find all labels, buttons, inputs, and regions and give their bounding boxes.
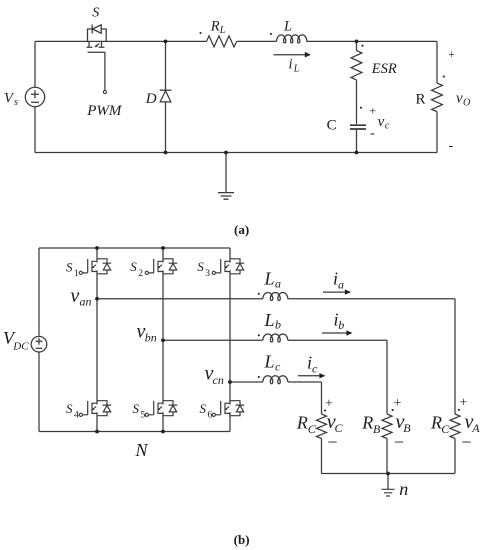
svg-text:S: S (197, 259, 204, 274)
svg-text:bn: bn (145, 330, 157, 344)
svg-text:L: L (219, 25, 226, 36)
svg-text:v: v (70, 285, 79, 307)
svg-text:b: b (338, 318, 344, 332)
svg-text:R: R (296, 412, 308, 432)
svg-text:−: − (461, 432, 471, 452)
svg-text:+: + (369, 103, 376, 117)
svg-text:C: C (308, 422, 317, 436)
svg-text:R: R (416, 91, 426, 107)
svg-text:S: S (133, 401, 140, 416)
svg-text:S: S (92, 6, 99, 21)
svg-text:v: v (456, 90, 463, 106)
svg-text:cn: cn (213, 373, 224, 387)
svg-text:b: b (275, 318, 281, 332)
svg-text:L: L (264, 352, 275, 372)
svg-text:2: 2 (138, 269, 143, 279)
svg-text:B: B (403, 421, 411, 435)
svg-text:S: S (130, 259, 137, 274)
svg-text:+: + (448, 47, 455, 61)
svg-text:n: n (399, 479, 408, 499)
svg-text:L: L (264, 310, 275, 330)
svg-text:S: S (200, 401, 207, 416)
svg-text:R: R (430, 412, 442, 432)
svg-text:an: an (80, 294, 92, 308)
svg-text:L: L (283, 19, 292, 35)
svg-text:s: s (14, 97, 18, 108)
svg-text:v: v (378, 114, 385, 130)
svg-text:+: + (460, 396, 468, 411)
svg-text:R: R (361, 412, 373, 432)
svg-text:A: A (471, 421, 480, 435)
svg-text:S: S (66, 259, 73, 274)
svg-text:-: - (449, 139, 454, 154)
svg-text:+: + (325, 396, 333, 411)
svg-text:ESR: ESR (371, 61, 397, 77)
svg-text:D: D (145, 91, 157, 107)
svg-text:L: L (293, 63, 300, 74)
svg-text:C: C (441, 422, 450, 436)
svg-text:6: 6 (208, 411, 213, 421)
svg-text:3: 3 (205, 269, 210, 279)
svg-text:(b): (b) (234, 532, 250, 547)
svg-text:1: 1 (74, 269, 79, 279)
svg-text:c: c (312, 362, 318, 376)
svg-text:C: C (327, 118, 337, 134)
svg-text:+: + (394, 396, 402, 411)
svg-text:O: O (463, 97, 470, 108)
svg-text:DC: DC (12, 340, 29, 352)
svg-text:B: B (373, 422, 381, 436)
svg-text:a: a (338, 277, 344, 291)
svg-text:N: N (135, 440, 149, 460)
svg-text:S: S (66, 401, 73, 416)
svg-text:c: c (385, 120, 390, 131)
svg-text:i: i (289, 56, 293, 72)
svg-text:c: c (275, 360, 281, 374)
svg-text:R: R (210, 18, 220, 34)
svg-text:PWM: PWM (86, 103, 123, 119)
svg-text:−: − (327, 432, 337, 452)
svg-text:5: 5 (141, 411, 146, 421)
svg-text:L: L (264, 268, 275, 288)
svg-text:-: - (370, 126, 375, 141)
svg-text:(a): (a) (234, 222, 249, 237)
svg-text:4: 4 (74, 411, 79, 421)
svg-text:a: a (275, 277, 281, 291)
svg-text:−: − (394, 432, 404, 452)
